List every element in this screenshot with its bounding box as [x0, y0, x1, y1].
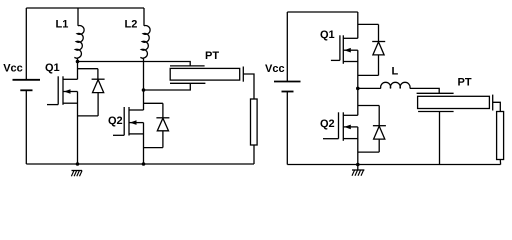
- piezoelectric transformer PT (left): [170, 66, 243, 83]
- battery V2 (right Vcc source): [274, 12, 301, 165]
- svg-text:Vcc: Vcc: [265, 63, 285, 75]
- inductor L (right, horizontal): [381, 82, 410, 88]
- battery V1 (left Vcc source): [13, 8, 41, 164]
- transistor Q2 (right): [323, 88, 358, 164]
- wire mid node to inductor L: [358, 87, 381, 89]
- svg-text:L1: L1: [56, 19, 69, 31]
- wire load bottom to rail (right): [499, 160, 501, 165]
- wire load bottom to rail (left): [253, 145, 255, 164]
- junction dot Q1 source at rail: [76, 162, 80, 166]
- ground (right): [352, 165, 364, 176]
- inductor L1: [74, 8, 84, 62]
- wire node A to PT top electrode: [78, 62, 191, 66]
- diode D2 (antiparallel with left Q2): [144, 103, 170, 147]
- wire top rail right: [287, 11, 358, 13]
- wire bottom rail left: [26, 163, 254, 165]
- wire top rail left: [26, 7, 144, 9]
- wire PT output to load (left): [243, 74, 254, 99]
- wire L2 bottom to node B (crosses node A wire): [143, 62, 145, 91]
- junction dot Q2 source at rail: [142, 162, 146, 166]
- transistor Q1 (left): [47, 62, 78, 165]
- wire inductor L to PT input: [410, 88, 439, 93]
- wire PT bottom electrode to rail (right): [439, 112, 441, 165]
- svg-text:L2: L2: [125, 19, 138, 31]
- wire PT output to load (right): [493, 102, 501, 111]
- wire bottom rail right: [287, 164, 500, 166]
- svg-text:Q1: Q1: [320, 29, 335, 41]
- ground (left): [71, 171, 82, 177]
- node mid junction dot (right half-bridge): [356, 87, 360, 91]
- inductor L2: [140, 8, 150, 62]
- wire node B to PT bottom electrode: [144, 83, 191, 90]
- svg-text:Q1: Q1: [45, 62, 60, 74]
- svg-text:Q2: Q2: [108, 115, 123, 127]
- junction dot ground node (right): [356, 163, 360, 167]
- svg-text:PT: PT: [205, 50, 219, 62]
- transistor Q1 (right): [331, 12, 358, 88]
- resistor RL (left load): [251, 99, 258, 145]
- svg-text:Q2: Q2: [320, 118, 335, 130]
- diode D3 (antiparallel with right Q1): [358, 24, 385, 75]
- node B junction dot: [142, 88, 146, 92]
- resistor RL (right load): [497, 112, 504, 160]
- transistor Q2 (left): [113, 90, 144, 164]
- svg-text:Vcc: Vcc: [3, 62, 23, 74]
- svg-text:L: L: [392, 66, 399, 78]
- svg-text:PT: PT: [458, 77, 472, 89]
- piezoelectric transformer PT (right): [417, 93, 493, 111]
- node A junction dot: [76, 60, 80, 64]
- diode D1 (antiparallel with left Q1): [78, 69, 105, 116]
- diode D4 (antiparallel with right Q2): [358, 106, 386, 153]
